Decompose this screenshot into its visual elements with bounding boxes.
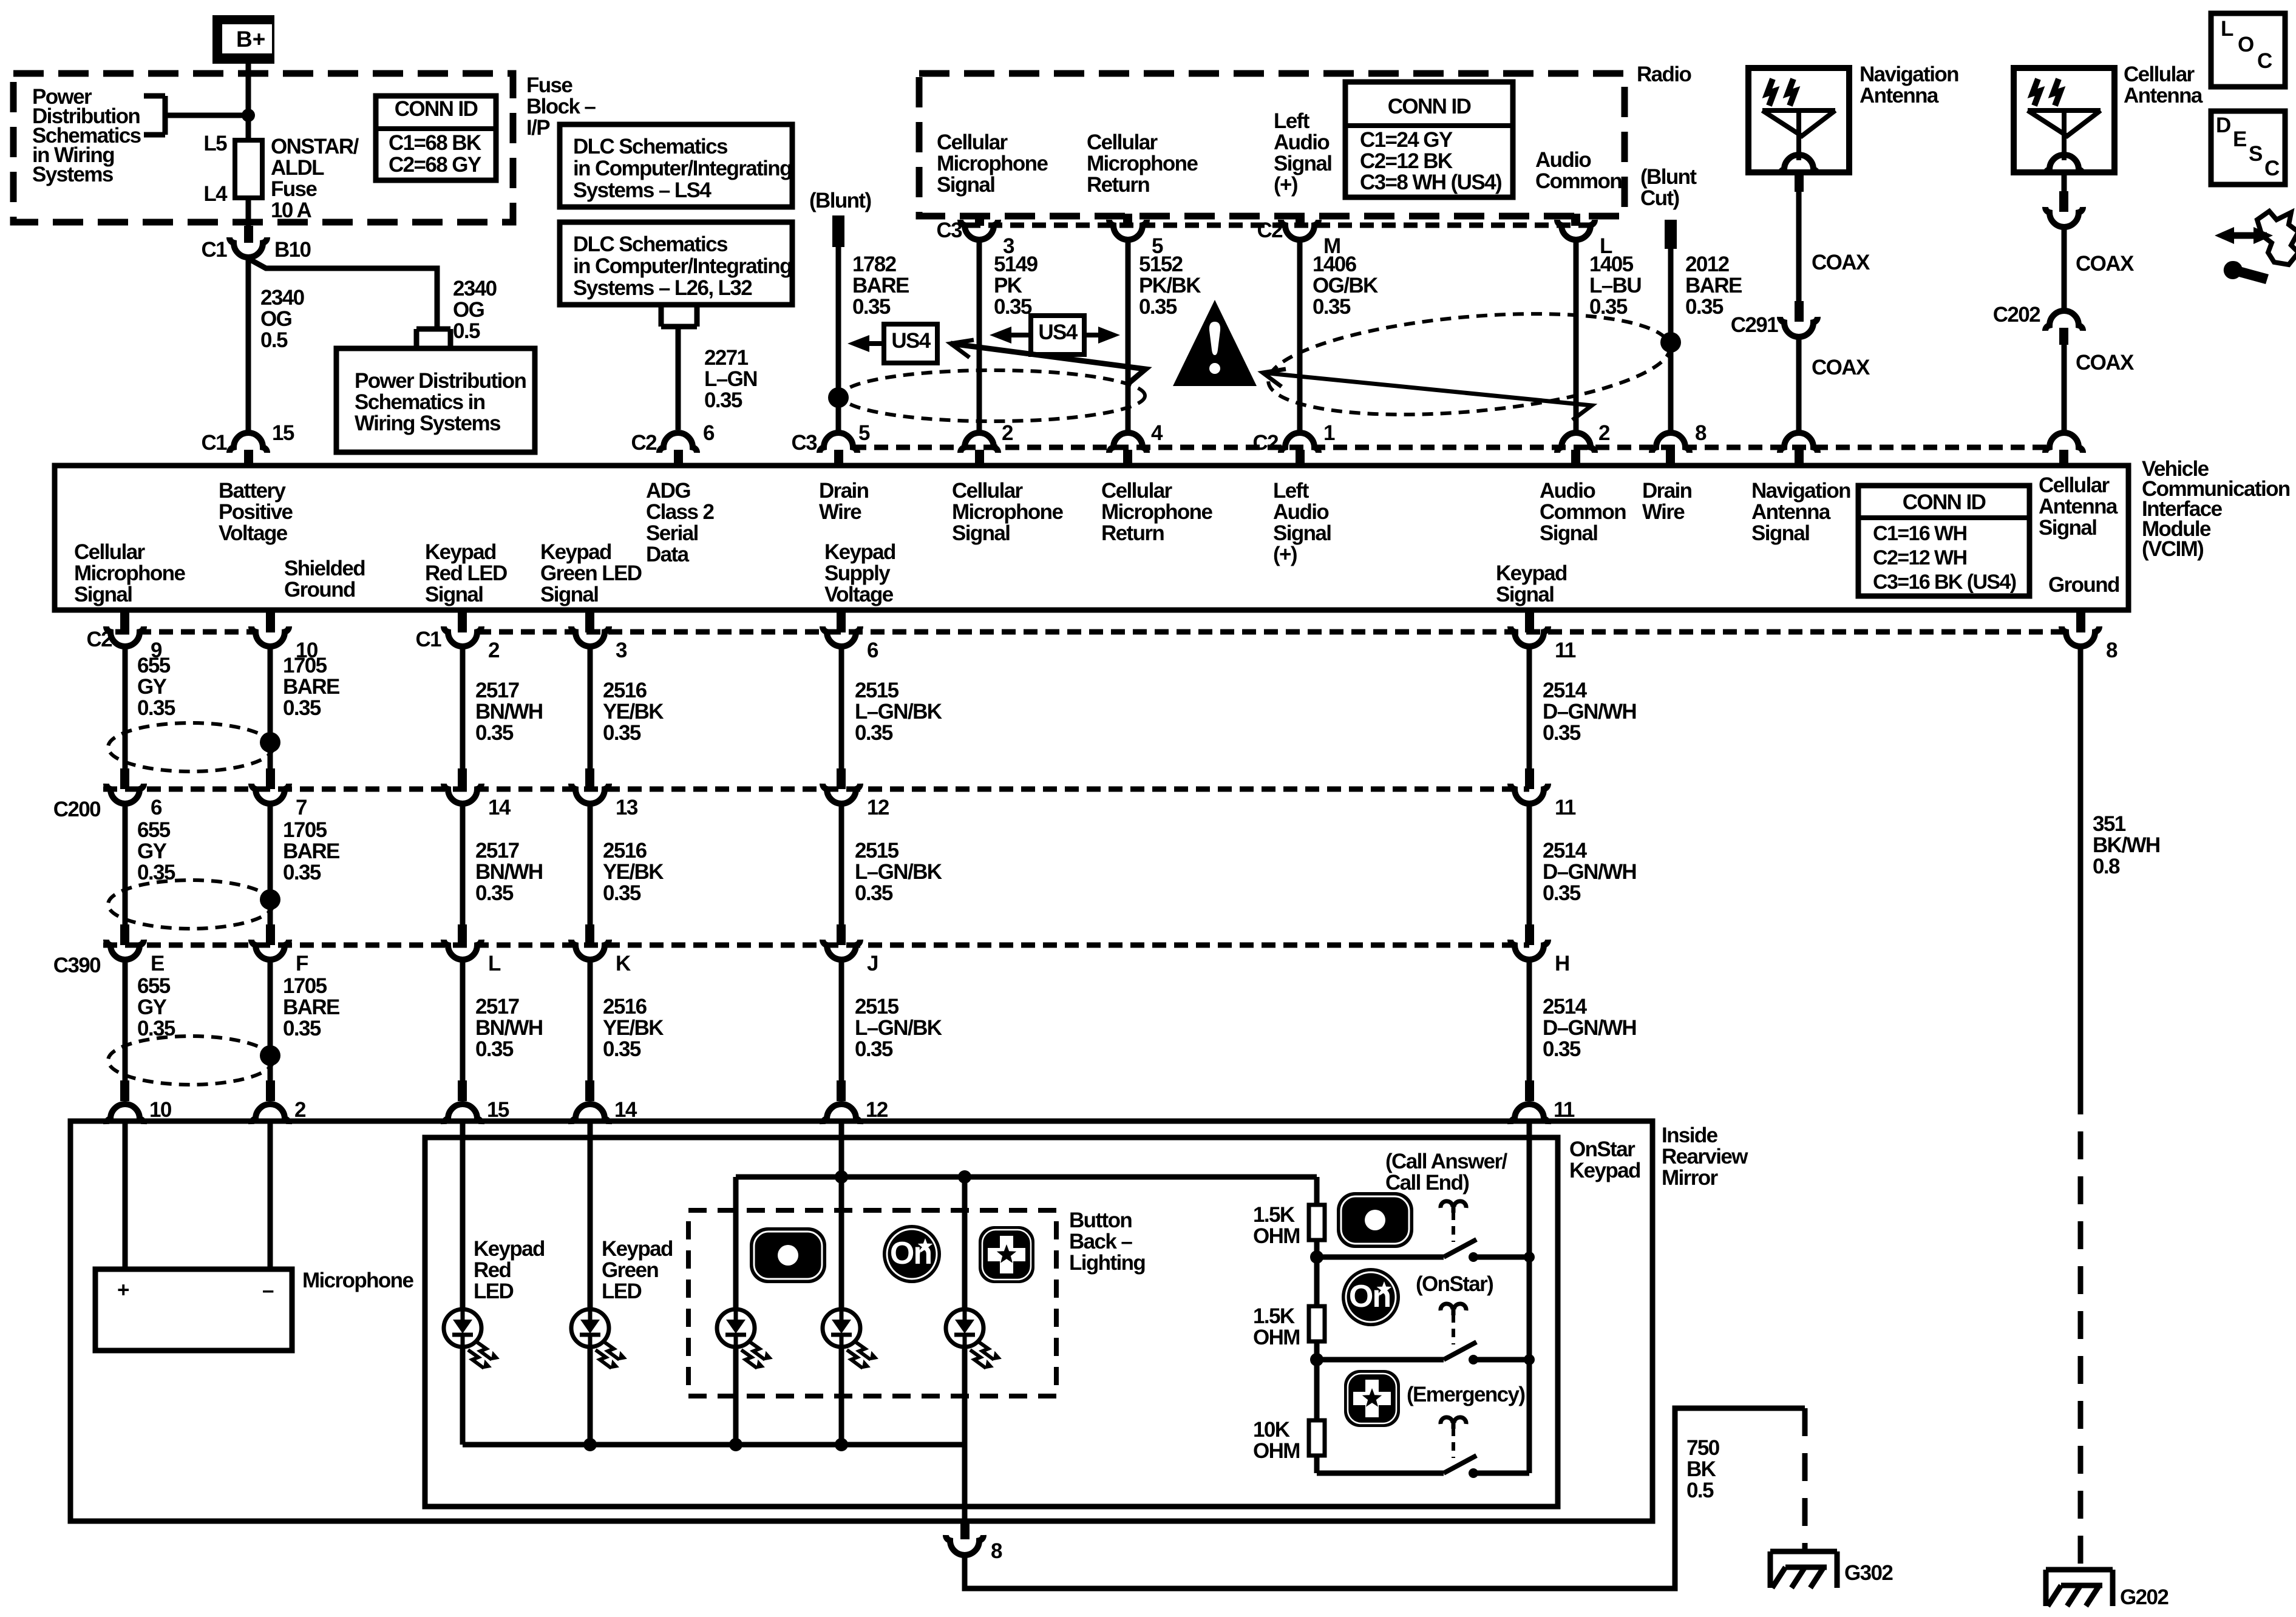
svg-text:L–GN/BK: L–GN/BK: [855, 860, 942, 884]
label pin F (C390): [296, 952, 308, 975]
inside rearview mirror box: [70, 1121, 1652, 1521]
label Cellular Microphone Signal (vcim bottom): [74, 540, 185, 606]
wire label 2514 D-GN/WH 0.35 (row3): [1543, 995, 1636, 1061]
label Audio Common (radio): [1535, 148, 1622, 193]
svg-text:12: 12: [867, 796, 889, 819]
label Drain Wire (right): [1642, 479, 1692, 524]
wire label 2514 D-GN/WH 0.35 (row1): [1543, 679, 1636, 745]
svg-text:Voltage: Voltage: [824, 583, 894, 606]
conn id box (fuse block): [376, 96, 496, 180]
adjustment icon (arrow and wrench): [2215, 211, 2296, 284]
label Ground (vcim): [2048, 573, 2119, 597]
svg-text:0.35: 0.35: [1685, 295, 1724, 319]
wire fuse to connector B10: [246, 198, 251, 228]
svg-text:1405: 1405: [1589, 253, 1634, 276]
wire R2 to row2: [1314, 1341, 1320, 1360]
svg-text:BK: BK: [1686, 1457, 1716, 1481]
wire 2514 (row2): [1527, 802, 1532, 924]
svg-text:Battery: Battery: [219, 479, 287, 503]
svg-text:Signal: Signal: [74, 583, 132, 606]
wire 2514 (row3): [1527, 958, 1532, 1080]
button back lighting dashed box: [688, 1210, 1056, 1396]
svg-text:2517: 2517: [475, 995, 519, 1019]
label COAX (nav upper): [1812, 251, 1870, 274]
connector pin 6 (vcim bottom row): [823, 609, 860, 646]
label Audio Common Signal (vcim): [1540, 479, 1626, 545]
svg-text:0.35: 0.35: [1543, 721, 1581, 745]
connector 2 (cell mic signal): [960, 433, 998, 467]
connector pin 14 (C200): [444, 768, 481, 804]
wire 2517 (row3): [460, 958, 466, 1080]
svg-text:0.35: 0.35: [283, 1017, 321, 1040]
svg-text:Green LED: Green LED: [540, 561, 642, 585]
svg-text:Microphone: Microphone: [952, 500, 1063, 524]
wire 1406: [1297, 239, 1303, 431]
svg-text:15: 15: [487, 1098, 509, 1122]
power distribution schematics box: [336, 348, 535, 452]
label pin 8 (mirror bottom): [991, 1539, 1002, 1563]
label pin 10 (mirror row): [149, 1098, 172, 1122]
resistor chain drop: [1314, 1177, 1320, 1205]
power feed B+ symbol: [212, 15, 274, 64]
svg-text:Radio: Radio: [1637, 63, 1691, 86]
label Cellular Microphone Signal (vcim): [952, 479, 1063, 545]
svg-text:10K: 10K: [1253, 1418, 1290, 1442]
junction dot led bus 2: [729, 1438, 742, 1451]
drain wire 1782: [836, 247, 841, 431]
svg-text:1406: 1406: [1313, 253, 1357, 276]
wire B+ to fuse: [246, 63, 251, 141]
svg-text:D–GN/WH: D–GN/WH: [1543, 700, 1636, 724]
wire red led to bus: [460, 1347, 466, 1445]
connector pin 12 (mirror row): [823, 1080, 860, 1124]
connector C2 1 (left audio): [1281, 433, 1319, 467]
svg-text:GY: GY: [137, 675, 167, 699]
svg-text:Keypad: Keypad: [1569, 1159, 1640, 1182]
label (Blunt): [809, 189, 871, 212]
wire label 351 BK/WH 0.8: [2093, 812, 2160, 878]
svg-text:CONN ID: CONN ID: [395, 97, 478, 121]
label COAX (nav lower): [1812, 356, 1870, 379]
wire keypad supply voltage: [839, 1124, 844, 1309]
svg-text:0.35: 0.35: [1139, 295, 1177, 319]
label pin 6: [703, 421, 715, 445]
svg-text:OHM: OHM: [1253, 1224, 1300, 1248]
svg-text:O: O: [2238, 33, 2254, 56]
svg-text:C1: C1: [415, 628, 441, 651]
svg-text:Drain: Drain: [1642, 479, 1692, 503]
resistor R2 1.5K: [1309, 1306, 1325, 1341]
connector pin 13 (C200): [571, 768, 609, 804]
connector C3 3 (radio): [960, 214, 998, 240]
svg-text:1.5K: 1.5K: [1253, 1304, 1295, 1328]
label (OnStar): [1416, 1272, 1493, 1296]
svg-text:Signal: Signal: [1540, 521, 1597, 545]
wire 1705 (row3): [268, 958, 273, 1080]
label Cellular Antenna: [2124, 63, 2203, 107]
onstar button icon (keypad): [1342, 1268, 1400, 1326]
svg-text:Signal: Signal: [1274, 152, 1331, 175]
svg-text:Cellular: Cellular: [2124, 63, 2195, 86]
wire label 1405 L-BU 0.35: [1589, 253, 1641, 319]
wire 2516 (row3): [588, 958, 593, 1080]
label COAX (cell lower): [2076, 351, 2135, 375]
wire label 2516 YE/BK 0.35 (row1): [603, 679, 664, 745]
svg-text:Serial: Serial: [646, 521, 698, 545]
svg-text:14: 14: [488, 796, 511, 819]
label pin L (C390): [488, 952, 501, 975]
wire led bus to pin 8: [962, 1445, 968, 1522]
svg-text:ADG: ADG: [646, 479, 690, 503]
svg-text:2516: 2516: [603, 679, 647, 702]
label Keypad Supply Voltage: [824, 540, 895, 606]
svg-text:12: 12: [866, 1098, 888, 1122]
DESC reference box: [2211, 111, 2285, 185]
ground wire 351 solid: [2078, 645, 2084, 1086]
label Keypad Signal: [1496, 561, 1567, 606]
label pin 6 (C200): [151, 796, 162, 819]
svg-text:0.35: 0.35: [603, 881, 641, 905]
switch blade 2 (onstar): [1444, 1342, 1478, 1364]
svg-text:Cellular: Cellular: [1101, 479, 1173, 503]
svg-text:6: 6: [703, 421, 715, 445]
coax nav lower: [1796, 336, 1802, 431]
fuse block dashed box: [13, 73, 513, 222]
dashed connector row (radio): [966, 223, 1591, 228]
label C1 (B10): [201, 238, 227, 262]
label Keypad Red LED (keypad): [474, 1237, 545, 1303]
svg-text:2516: 2516: [603, 839, 647, 863]
ground G302: [1770, 1551, 1837, 1588]
wire keypad red led: [460, 1124, 466, 1309]
svg-text:0.35: 0.35: [283, 696, 321, 720]
svg-text:Supply: Supply: [824, 561, 891, 585]
onstar button icon (backlight): [883, 1225, 941, 1283]
svg-text:10: 10: [149, 1098, 172, 1122]
resistor R3 10K: [1309, 1420, 1325, 1456]
svg-text:0.35: 0.35: [137, 861, 175, 884]
svg-text:Left: Left: [1273, 479, 1309, 503]
svg-text:C: C: [2264, 157, 2280, 180]
svg-text:14: 14: [614, 1098, 637, 1122]
svg-text:Cellular: Cellular: [937, 131, 1008, 154]
blunt end bar: [832, 215, 844, 247]
svg-text:2012: 2012: [1685, 253, 1730, 276]
wire 5152: [1126, 239, 1131, 431]
wire label 2516 YE/BK 0.35 (row2): [603, 839, 664, 905]
svg-text:0.35: 0.35: [137, 1017, 175, 1040]
svg-text:0.35: 0.35: [1313, 295, 1351, 319]
svg-text:C291: C291: [1731, 313, 1778, 337]
label pin 5: [858, 421, 870, 445]
svg-text:3: 3: [616, 639, 627, 662]
label pin 7 (C200): [296, 796, 307, 819]
svg-text:Fuse: Fuse: [271, 177, 317, 201]
svg-text:Ground: Ground: [2048, 573, 2119, 597]
svg-text:11: 11: [1555, 639, 1576, 662]
svg-text:Microphone: Microphone: [937, 152, 1048, 175]
label pin 2 (audio common): [1598, 421, 1610, 445]
svg-text:2515: 2515: [855, 679, 899, 702]
svg-text:C2: C2: [1257, 219, 1283, 242]
svg-text:OnStar: OnStar: [1569, 1137, 1635, 1161]
LED keypad green: [571, 1309, 626, 1368]
phone button icon (backlight): [750, 1227, 826, 1283]
svg-text:Cellular: Cellular: [2039, 473, 2110, 497]
wire label 2517 BN/WH 0.35 (row3): [475, 995, 543, 1061]
wire 5149: [977, 239, 982, 431]
supply bus: [736, 1177, 1317, 1309]
phone button icon (keypad): [1337, 1192, 1413, 1248]
svg-text:2515: 2515: [855, 995, 899, 1019]
svg-text:Navigation: Navigation: [1860, 63, 1958, 86]
svg-text:Systems – L26, L32: Systems – L26, L32: [573, 276, 752, 300]
svg-text:C2: C2: [86, 628, 112, 651]
svg-text:2516: 2516: [603, 995, 647, 1019]
label Vehicle Communication Interface Module: [2142, 457, 2290, 561]
connector pin 11 (mirror row): [1510, 1080, 1548, 1124]
label C200: [53, 798, 101, 821]
svg-text:C202: C202: [1993, 303, 2040, 327]
wire label 2515 L-GN/BK 0.35 (row2): [855, 839, 942, 905]
svg-text:0.8: 0.8: [2093, 855, 2120, 878]
svg-text:Audio: Audio: [1535, 148, 1591, 172]
svg-text:Navigation: Navigation: [1751, 479, 1850, 503]
label Left Audio Signal (vcim): [1273, 479, 1331, 566]
wire label 2515 L-GN/BK 0.35 (row1): [855, 679, 942, 745]
svg-text:Return: Return: [1087, 173, 1149, 197]
svg-text:C3: C3: [936, 219, 962, 242]
connector pin 7 (C200): [251, 768, 289, 804]
svg-text:I/P: I/P: [526, 116, 550, 140]
svg-text:BARE: BARE: [283, 839, 339, 863]
svg-text:8: 8: [991, 1539, 1002, 1563]
svg-text:Back –: Back –: [1069, 1230, 1132, 1253]
svg-text:OHM: OHM: [1253, 1439, 1300, 1463]
svg-text:0.5: 0.5: [260, 328, 288, 352]
switch actuator 3: [1441, 1417, 1466, 1458]
svg-text:B10: B10: [274, 238, 311, 262]
wire 2517 (row1): [460, 645, 466, 768]
wire 2515 (row2): [839, 802, 844, 924]
svg-text:11: 11: [1555, 796, 1576, 819]
US4 option box (drain): [847, 324, 937, 363]
microphone box: [95, 1269, 292, 1351]
svg-text:(+): (+): [1274, 173, 1297, 197]
svg-text:Signal: Signal: [952, 521, 1010, 545]
svg-text:L4: L4: [203, 182, 228, 206]
wire 2515 (row3): [839, 958, 844, 1080]
wire R3 to row3: [1317, 1455, 1444, 1473]
switch contact to signal 3: [1473, 1471, 1529, 1476]
blunt cut end bar (right drain): [1665, 220, 1677, 249]
svg-text:(VCIM): (VCIM): [2142, 537, 2203, 561]
svg-text:C2=12 WH: C2=12 WH: [1873, 546, 1966, 569]
label C2 (vcim row): [1252, 431, 1279, 455]
svg-text:OG: OG: [453, 298, 484, 322]
label G202: [2120, 1585, 2169, 1609]
resistor R1 1.5K: [1309, 1205, 1325, 1240]
svg-text:2515: 2515: [855, 839, 899, 863]
svg-text:655: 655: [137, 654, 171, 677]
wire label 2340 OG 0.5 (right): [453, 277, 497, 343]
wire label 1705 BARE 0.35 (row1): [283, 654, 339, 720]
label Microphone: [302, 1269, 413, 1292]
connector pin 11 (C200): [1510, 768, 1548, 804]
label pin 6 (vcim bottom row): [867, 639, 878, 662]
wire 1405: [1574, 239, 1579, 431]
label Keypad Green LED Signal: [540, 540, 642, 606]
svg-text:ALDL: ALDL: [271, 156, 324, 180]
connector pin 9 (vcim bottom row): [106, 609, 144, 646]
dashed connector row (vcim top): [852, 445, 2050, 450]
svg-text:11: 11: [1554, 1098, 1575, 1122]
shield ellipse (audio pair): [1264, 299, 1674, 429]
label Shielded Ground: [284, 557, 365, 602]
svg-text:BN/WH: BN/WH: [475, 1016, 543, 1040]
label (Blunt Cut): [1640, 165, 1697, 210]
switch row 2: [1317, 1357, 1444, 1363]
svg-text:G202: G202: [2120, 1585, 2169, 1609]
navigation antenna box and symbol: [1748, 68, 1849, 175]
label COAX (cell upper): [2076, 252, 2135, 276]
svg-text:Audio: Audio: [1540, 479, 1595, 503]
svg-text:BARE: BARE: [1685, 274, 1742, 297]
label pin L: [1600, 234, 1612, 258]
wire 2516 (row2): [588, 802, 593, 924]
svg-text:G302: G302: [1844, 1561, 1893, 1585]
svg-text:in Computer/Integrating: in Computer/Integrating: [573, 254, 792, 278]
connector C1 B10: [229, 237, 267, 257]
connector pin 6 (C200): [106, 768, 144, 804]
svg-text:COAX: COAX: [1812, 251, 1870, 274]
connector pin 12 (C200): [823, 768, 860, 804]
label C2 (bottom row): [86, 628, 112, 651]
wire keypad green led: [588, 1124, 593, 1309]
connector pin 11 (vcim bottom row): [1510, 609, 1548, 646]
svg-text:Power Distribution: Power Distribution: [355, 369, 526, 393]
svg-text:C1: C1: [201, 431, 227, 455]
svg-text:Inside: Inside: [1662, 1124, 1718, 1147]
connector C2 6: [659, 433, 697, 467]
svg-text:L: L: [2221, 17, 2233, 41]
svg-text:L: L: [488, 952, 501, 975]
svg-text:GY: GY: [137, 995, 167, 1019]
switch row 1: [1317, 1255, 1444, 1260]
coax cell upper: [2045, 172, 2083, 308]
svg-text:C3=8 WH (US4): C3=8 WH (US4): [1360, 171, 1501, 194]
ground G202: [2046, 1570, 2113, 1606]
label pin M: [1323, 234, 1340, 258]
label C1 (bottom row): [415, 628, 441, 651]
svg-text:4: 4: [1151, 421, 1163, 445]
wire B10 to C1-15: [246, 256, 251, 431]
svg-text:Signal: Signal: [425, 583, 483, 606]
svg-text:E: E: [2233, 127, 2246, 151]
LED keypad red: [444, 1309, 498, 1368]
shield ellipse row1: [108, 723, 280, 771]
label Inside Rearview Mirror: [1662, 1124, 1748, 1190]
svg-text:0.35: 0.35: [855, 881, 893, 905]
svg-text:C200: C200: [53, 798, 101, 821]
wire branch from B10 to power distribution: [248, 259, 437, 329]
label pin 9 (vcim bottom row): [151, 639, 162, 662]
label Battery Positive Voltage: [219, 479, 293, 545]
svg-text:0.35: 0.35: [475, 721, 514, 745]
svg-text:Signal: Signal: [1496, 583, 1554, 606]
svg-text:L5: L5: [203, 132, 227, 155]
svg-text:Common: Common: [1540, 500, 1626, 524]
emergency button icon (backlight): [979, 1226, 1034, 1283]
svg-text:Shielded: Shielded: [284, 557, 365, 580]
connector pin J (C390): [823, 924, 860, 960]
svg-text:Antenna: Antenna: [1751, 500, 1831, 524]
DLC schematics box L26 L32: [560, 222, 792, 305]
wire 2514 (row1): [1527, 645, 1532, 768]
wire bbl led1 to bus: [733, 1347, 739, 1445]
svg-text:0.35: 0.35: [994, 295, 1032, 319]
label ADG Class 2 Serial Data: [646, 479, 715, 566]
svg-text:LED: LED: [602, 1280, 642, 1303]
svg-text:C1=24 GY: C1=24 GY: [1360, 128, 1453, 152]
connector pin 14 (mirror row): [571, 1080, 609, 1124]
svg-text:B+: B+: [236, 27, 265, 52]
connector pin L (C390): [444, 924, 481, 960]
terminal bar at B10: [244, 226, 253, 243]
svg-text:2517: 2517: [475, 679, 519, 702]
svg-text:GY: GY: [137, 839, 167, 863]
svg-text:655: 655: [137, 818, 171, 842]
svg-text:Signal: Signal: [2039, 516, 2096, 540]
svg-text:5149: 5149: [994, 253, 1038, 276]
label pin 8 (drain): [1695, 421, 1707, 445]
connector (cell antenna): [2045, 433, 2083, 467]
label Cellular Microphone Return (radio): [1087, 131, 1198, 197]
switch blade 1 (call answer): [1444, 1239, 1478, 1262]
label Keypad Red LED Signal: [425, 540, 507, 606]
label pin 3: [1003, 234, 1014, 258]
svg-text:K: K: [616, 952, 631, 975]
svg-text:C: C: [2257, 49, 2272, 73]
svg-text:Block –: Block –: [526, 95, 596, 118]
wire mic signal to microphone: [123, 1124, 128, 1269]
wire label 2271 L-GN 0.35: [704, 346, 757, 412]
onstar keypad box: [425, 1137, 1558, 1507]
wire shielded ground to microphone: [268, 1124, 273, 1269]
svg-text:ONSTAR/: ONSTAR/: [271, 135, 359, 158]
svg-text:Antenna: Antenna: [1860, 84, 1939, 107]
svg-text:5: 5: [858, 421, 870, 445]
svg-text:C2=12 BK: C2=12 BK: [1360, 149, 1453, 173]
connector 2 (audio common): [1557, 433, 1595, 467]
svg-text:C3=16 BK (US4): C3=16 BK (US4): [1873, 571, 2016, 594]
led return bus: [463, 1442, 965, 1448]
svg-text:C1=16 WH: C1=16 WH: [1873, 522, 1966, 545]
connector pin E (C390): [106, 924, 144, 960]
label pin 13 (C200): [616, 796, 638, 819]
switch contact to signal 1: [1473, 1252, 1535, 1263]
svg-text:S: S: [2249, 142, 2262, 166]
label C2 (radio row): [1257, 219, 1283, 242]
connector 4 (cell mic return): [1109, 433, 1147, 467]
svg-text:Keypad: Keypad: [540, 540, 611, 564]
label pin J (C390): [867, 952, 878, 975]
svg-text:BARE: BARE: [283, 995, 339, 1019]
svg-text:CONN ID: CONN ID: [1388, 95, 1471, 118]
svg-text:2: 2: [488, 639, 500, 662]
svg-text:Microphone: Microphone: [1087, 152, 1198, 175]
svg-text:Signal: Signal: [540, 583, 598, 606]
